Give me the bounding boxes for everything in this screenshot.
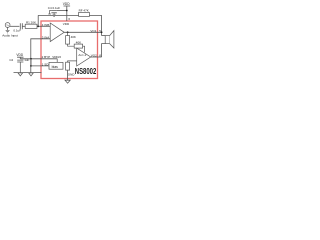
wire C4 to VDD rail	[57, 10, 67, 12]
wire tap down	[67, 32, 69, 35]
svg-text:4 INB: 4 INB	[42, 23, 50, 27]
wire source to C1	[10, 25, 19, 27]
node internal feedback tap	[67, 31, 69, 33]
resistor 40K (vertical internal)	[66, 36, 70, 45]
svg-text:RF 47K: RF 47K	[79, 9, 89, 13]
op-amp A	[50, 23, 64, 42]
wire amp B output VO2	[91, 56, 102, 58]
wire 40K to VO2 node	[83, 46, 85, 52]
node at pin 4	[37, 25, 39, 27]
svg-text:NS8002: NS8002	[75, 67, 97, 76]
wire pin3 INA	[31, 39, 50, 73]
capacitor C2 1uF (bypass)	[17, 60, 23, 62]
svg-text:bias: bias	[52, 65, 59, 69]
wire pin1 SD	[31, 65, 49, 67]
svg-text:VDD: VDD	[16, 53, 23, 57]
node C4/VDD	[66, 10, 68, 12]
resistor R1 20K	[25, 24, 37, 28]
capacitor C4 0.1uF (supply decoupling)	[51, 11, 56, 13]
wire to speaker top	[102, 35, 106, 37]
ground (under SD riser)	[29, 73, 34, 76]
svg-text:C4 0.1uF: C4 0.1uF	[48, 6, 61, 10]
wire feedback riser	[37, 15, 39, 26]
ground (under C4)	[53, 15, 56, 16]
svg-text:VO2: VO2	[91, 53, 97, 57]
svg-text:Av=-1: Av=-1	[78, 53, 86, 57]
wire SD riser	[30, 59, 32, 66]
node BYP/SD riser	[30, 58, 32, 60]
svg-text:VDD: VDD	[63, 22, 70, 26]
svg-text:VDD: VDD	[63, 2, 70, 6]
resistor RF 47K	[79, 12, 90, 16]
svg-text:Audio Input: Audio Input	[2, 34, 18, 38]
wire to second 40K	[68, 44, 75, 46]
wire R1 to pin4	[37, 25, 50, 27]
resistor 40K (horizontal internal)	[74, 44, 82, 48]
resistor internal (to GND)	[66, 62, 70, 70]
wire feedback down right side	[101, 15, 103, 35]
wire C1 to R1	[22, 25, 25, 27]
node VO1 speaker	[101, 31, 103, 33]
svg-text:VO1: VO1	[90, 29, 96, 33]
svg-text:0.1uF: 0.1uF	[13, 28, 21, 32]
wire amp A output VO1	[64, 31, 101, 33]
wire BYP run	[20, 58, 57, 60]
wire amp B +in to resistor	[68, 61, 77, 62]
svg-text:C2: C2	[9, 58, 13, 62]
stub left of C4	[48, 11, 51, 15]
op-amp B	[77, 48, 91, 66]
wire speaker bottom to VO2	[102, 44, 106, 57]
svg-text:VDD/2: VDD/2	[52, 55, 61, 59]
wire feedback top run	[38, 14, 101, 16]
audio input source V1	[5, 23, 10, 28]
svg-text:1uF: 1uF	[24, 58, 29, 62]
svg-text:2 BYP: 2 BYP	[42, 55, 51, 59]
ground (pin 7)	[65, 80, 70, 83]
ground (under C2)	[18, 73, 23, 76]
wire to ground pin 7	[67, 70, 69, 81]
ground rail (bottom left)	[14, 72, 42, 74]
IC U1 NS8002 outline (red box)	[41, 21, 98, 79]
speaker LS1	[105, 36, 109, 44]
svg-text:1 SD: 1 SD	[42, 62, 50, 66]
wire BYP to bias	[56, 59, 58, 63]
ground (under audio input)	[6, 27, 10, 33]
capacitor C1 0.1uF (series input cap)	[20, 23, 22, 29]
svg-text:R1 20K: R1 20K	[26, 21, 36, 25]
svg-text:40K: 40K	[76, 41, 81, 45]
node SD	[30, 65, 32, 67]
bias block	[49, 62, 63, 69]
svg-text:40K: 40K	[71, 35, 76, 39]
